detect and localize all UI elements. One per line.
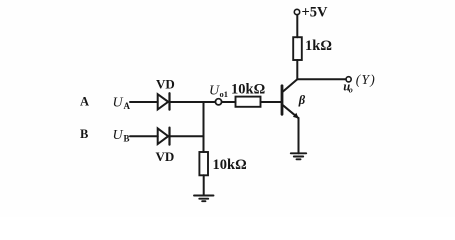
label β xyxy=(298,93,306,107)
svg-text:VD: VD xyxy=(156,149,175,164)
svg-text:A: A xyxy=(80,95,89,109)
input A label xyxy=(80,95,89,109)
terminal +5V circle xyxy=(294,9,299,14)
svg-text:B: B xyxy=(124,134,130,144)
diode VD1 xyxy=(158,93,170,109)
svg-text:o1: o1 xyxy=(220,89,229,99)
node U_o1 circle xyxy=(215,99,221,105)
label 1kΩ (R3) xyxy=(305,38,332,54)
wire B input to diode xyxy=(130,135,158,137)
resistor R2 10k (pull-down) xyxy=(199,152,208,175)
label U_B xyxy=(113,128,130,144)
wire collector to output terminal xyxy=(297,78,346,80)
svg-text:VD: VD xyxy=(156,77,175,92)
wire R2 to ground xyxy=(203,175,205,195)
svg-text:10kΩ: 10kΩ xyxy=(213,157,247,173)
wire emitter vertical to ground xyxy=(298,118,300,153)
ground G1 xyxy=(194,196,214,202)
label U_A xyxy=(113,96,131,112)
wire R1 to transistor base xyxy=(261,101,282,103)
resistor R1 10k (base) xyxy=(236,97,261,107)
wire R3 to +5V terminal xyxy=(296,15,298,37)
wire A input to diode xyxy=(130,101,158,103)
terminal output circle xyxy=(346,77,351,82)
diode VD2 xyxy=(158,128,170,145)
wire diode VD2 to junction xyxy=(170,135,204,137)
label U_o1 xyxy=(209,84,228,100)
input B label xyxy=(80,127,88,141)
label u_o xyxy=(343,80,353,95)
wire diode VD1 to node circle xyxy=(170,101,216,103)
svg-text:B: B xyxy=(80,127,88,141)
svg-text:10kΩ: 10kΩ xyxy=(231,82,265,98)
label 10kΩ (R2) xyxy=(213,157,247,173)
wire node to resistor R1 xyxy=(222,101,236,103)
label VD (VD1) xyxy=(156,77,175,92)
label 10kΩ (R1) xyxy=(231,82,265,98)
resistor R3 1k xyxy=(293,37,302,60)
svg-text:+5V: +5V xyxy=(302,5,329,21)
svg-text:β: β xyxy=(298,93,306,107)
label (Y) xyxy=(356,72,376,87)
svg-text:1kΩ: 1kΩ xyxy=(305,38,332,54)
svg-text:U: U xyxy=(113,128,124,143)
ground G2 xyxy=(291,153,306,159)
svg-text:(Y): (Y) xyxy=(356,72,376,87)
label +5V xyxy=(302,5,329,21)
wire junction vertical (node to R2) xyxy=(203,102,205,152)
transistor Q1 xyxy=(282,79,299,118)
svg-text:U: U xyxy=(113,96,124,111)
svg-text:U: U xyxy=(209,84,220,99)
wire collector vertical up to R3 xyxy=(296,60,298,79)
svg-text:o: o xyxy=(349,85,353,94)
label VD (VD2) xyxy=(156,149,175,164)
